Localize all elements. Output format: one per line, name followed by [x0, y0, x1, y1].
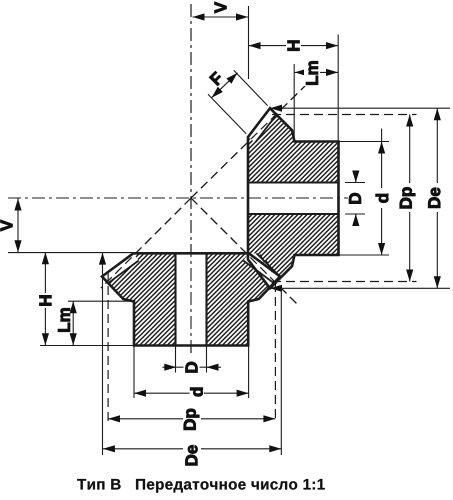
- dimension Lm top: line: [295, 71, 338, 73]
- label Lm top: [306, 61, 318, 84]
- dimension Dp right: line: [409, 115, 411, 184]
- meshing tooth-gap flank line (to bottom gear tooth tip): [257, 253, 281, 276]
- bottom gear outline: [102, 253, 280, 345]
- label V left: [1, 220, 13, 231]
- label D right: [349, 193, 361, 203]
- pitch cone dashed line upper-right: [191, 85, 306, 198]
- F extension line from tooth tip: [234, 70, 268, 105]
- bottom gear bore extensions: [175, 347, 177, 373]
- right gear bore (white): [248, 183, 339, 215]
- arrow at tip on De bottom line: [270, 285, 282, 292]
- pitch dashes over teeth: [191, 85, 306, 198]
- F extension line from tooth corner: [208, 94, 246, 134]
- bottom gear Dp left reference line (dashed vertical): [107, 272, 109, 421]
- right gear bore lines: [248, 181, 339, 183]
- label Lm left: [58, 308, 70, 331]
- bottom gear bore (white): [176, 253, 207, 345]
- meshing zone white area (right gear bottom tooth gap): [248, 253, 280, 288]
- dimension D right: lines/arrows: [355, 171, 357, 183]
- label d bottom: [190, 388, 202, 397]
- label Dp bottom: [184, 409, 199, 430]
- pitch cone dashed line lower-left: [101, 198, 191, 288]
- bottom gear Dp right reference line (dashed vertical): [274, 283, 276, 421]
- bottom gear hub bottom extension (left): [40, 345, 134, 347]
- dimension V left: line: [17, 199, 19, 253]
- centerlines redrawn over fills: [190, 4, 192, 353]
- caption: [77, 479, 325, 493]
- arrow at tip on De top line: [270, 105, 282, 112]
- label H top: [288, 41, 300, 51]
- bottom gear right tooth face (white): [243, 253, 280, 283]
- pitch cone dashed line lower-right: [191, 198, 297, 304]
- dimension H top: line: [249, 45, 339, 47]
- extension line hub corner (Lm): [293, 64, 295, 141]
- label Dp right: [400, 187, 415, 208]
- right gear outline: [248, 108, 339, 288]
- right gear Dp bottom reference line (dashed): [272, 281, 417, 283]
- dimension d right: line: [381, 129, 383, 189]
- dimension H left: line: [44, 252, 46, 345]
- horizontal centerline (right gear axis): [8, 197, 348, 199]
- dimension F: line: [212, 73, 238, 98]
- extension line top right (back face of right gear): [337, 35, 339, 142]
- label H left: [40, 295, 52, 305]
- dimension Lm left: line: [72, 301, 74, 345]
- label F: [209, 71, 223, 85]
- label V top: [215, 2, 227, 13]
- bottom gear cross-section hatched body: [102, 253, 280, 345]
- dimension D bottom: lines/arrows: [162, 366, 176, 368]
- dimension d bottom: line: [134, 392, 190, 394]
- right gear top tooth face (white): [248, 108, 277, 142]
- bottom gear step extension (Lm left): [68, 300, 134, 302]
- right gear hub top edge extension: [339, 141, 390, 143]
- bottom gear tooth root lines: [107, 261, 138, 284]
- dimension V top: line: [193, 16, 249, 18]
- right gear bore extensions: [345, 182, 365, 184]
- label d right: [376, 194, 388, 203]
- bottom gear De right reference line (solid vertical): [280, 288, 282, 455]
- dimension Dp bottom: line: [108, 418, 183, 420]
- right gear cross-section hatched body: [248, 108, 339, 288]
- label De right: [428, 188, 440, 208]
- bottom gear De left reference line (solid, vertical): [102, 253, 104, 455]
- right gear De top reference line (solid, from tip): [270, 107, 450, 109]
- bottom gear bore lines: [174, 253, 176, 345]
- bottom gear top face extension (left): [8, 252, 133, 254]
- arrow at top of De left line: [99, 253, 106, 265]
- right gear top tooth root line: [255, 114, 277, 143]
- bottom gear left tooth face (white): [102, 253, 139, 283]
- bottom gear hub edge extensions (d): [133, 346, 135, 399]
- extension line top (front face of right gear): [248, 6, 250, 79]
- right gear Dp top reference line (dashed): [272, 114, 417, 116]
- tooth flank marks in meshing zone: [260, 255, 265, 263]
- right gear De bottom reference line (solid): [270, 287, 450, 289]
- label De bottom: [186, 445, 198, 465]
- vertical centerline (bottom gear axis): [190, 4, 192, 353]
- right gear hub bottom edge extension: [339, 254, 390, 256]
- dimension De right: line: [436, 108, 438, 183]
- label D bottom: [186, 362, 198, 372]
- dimension De bottom: line: [103, 448, 183, 450]
